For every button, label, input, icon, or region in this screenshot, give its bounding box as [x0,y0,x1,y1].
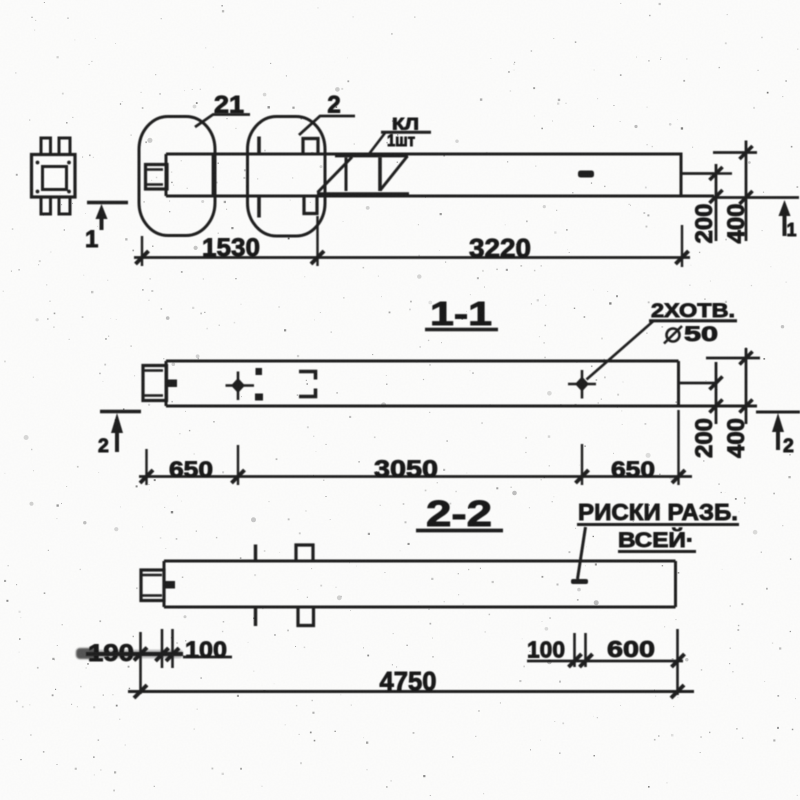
beam top view: joint bar below [257,197,261,218]
overall dimension line 4750 [128,690,694,693]
view 1-1 200 dim line [715,362,718,424]
extension line left [141,236,143,266]
view 1-1 beam left edge [165,361,168,406]
leader to hole label [587,321,655,380]
beam top view: top edge [166,153,681,156]
cross-section symbol inner square [43,167,67,190]
cross-section rebar dot bottom-left [36,190,40,194]
view 2-2 left tenon [141,570,164,601]
hole label diameter 50 [667,329,680,342]
section mark 2 left arrow [115,428,119,452]
beam top view: top tab plate [303,139,318,155]
section mark 1 right arrow [783,212,787,236]
KL plate left diagonal [318,157,353,193]
view 2-2 left protrusion [165,581,176,589]
extension line joint [316,216,318,266]
beam top view: bottom edge [166,195,714,198]
top view 200 dim line [715,164,718,241]
cross-section bottom loop right [59,197,70,214]
KL label leader [369,133,385,154]
beam top view: bottom tab plate [304,197,317,214]
beam top view: end stub top [681,172,714,175]
dim ticks [140,470,153,483]
section mark 2 left reference line [100,410,141,414]
cross-section rebar dot top-left [36,161,40,165]
section mark 2 right arrow [776,427,780,450]
view 1-1 hole axis marker right [568,383,596,386]
extension lines right dims [573,633,576,667]
view 1-1 400 dim reference [706,357,760,360]
cross-section rebar dot bottom-right [67,190,71,194]
cross-section bottom loop left [41,197,51,214]
riska mark on beam [571,579,588,584]
view 1-1 joint mark lower [255,394,263,401]
view 2-2 right dim line [527,660,683,663]
section mark 1 right reference line [714,196,799,199]
dim tick [136,251,149,264]
view 2-2 joint bar above [254,545,257,563]
view 2-2 joint bar below [254,607,257,626]
callout ellipse 21 [139,117,215,236]
beam top view: joint line in ellipse 21 [212,154,215,196]
extension line right [681,225,683,267]
KL plate thick top band [335,153,408,158]
section mark 2 right reference line [756,411,800,414]
dimension line 1530 / 3220 [134,256,690,259]
KL plate right vertical [378,158,382,192]
smudge artifact left of 190 [76,648,98,659]
view 1-1 beam bottom edge [166,405,757,408]
KL plate thick bottom band [317,192,409,197]
dim tick [311,251,324,264]
beam top view: hole mark [578,171,594,178]
view 1-1 beam right edge [677,361,680,406]
view 1-1 end stub top [679,382,718,385]
view 2-2 left dim line [86,652,183,656]
view 2-2 bottom tab plate [298,607,314,626]
extension lines left dims [139,632,142,694]
view 1-1 hole axis marker left [226,384,255,387]
view 2-2 beam top edge [164,560,676,563]
beam top view: left edge [165,154,168,196]
view 2-2 beam left edge [163,561,166,607]
cross-section rebar dot top-right [67,161,71,165]
dim ticks right [569,654,582,667]
view 1-1 beam top edge [166,360,679,363]
view 1-1 bracket mark bottom [299,389,316,397]
top view 200 dim reference [714,172,732,175]
beam top view: right edge [680,153,683,197]
dim tick [676,251,689,264]
cross-section top loop right [59,138,70,155]
cross-section top loop left [41,138,51,155]
dim ticks left [134,648,147,661]
section mark 1 left reference line [87,201,128,204]
extension lines [145,449,147,485]
cross-section symbol outer square [32,155,76,198]
section mark 1 left arrow [100,216,104,230]
view 1-1 joint mark upper [256,368,263,375]
view 1-1 left protrusion [167,380,178,388]
top view 400 dim line [745,141,748,242]
beam top view: left tenon [146,165,168,190]
KL plate left vertical [345,158,348,192]
view 1-1 400 dim line [745,348,748,424]
KL plate right diagonal [380,156,408,191]
view 2-2 beam bottom edge [164,606,676,609]
view 1-1 dimension line 650/3050/650 [139,475,692,478]
view 2-2 beam right edge [674,561,677,607]
view 1-1 bracket mark top [299,372,316,380]
view 1-1 left tenon [143,366,167,401]
riska leader [578,527,586,579]
callout ellipse 2 [248,117,326,237]
top view 400 dim reference [713,151,757,154]
view 2-2 top tab plate [296,545,313,561]
beam top view: joint bar above [257,137,261,154]
